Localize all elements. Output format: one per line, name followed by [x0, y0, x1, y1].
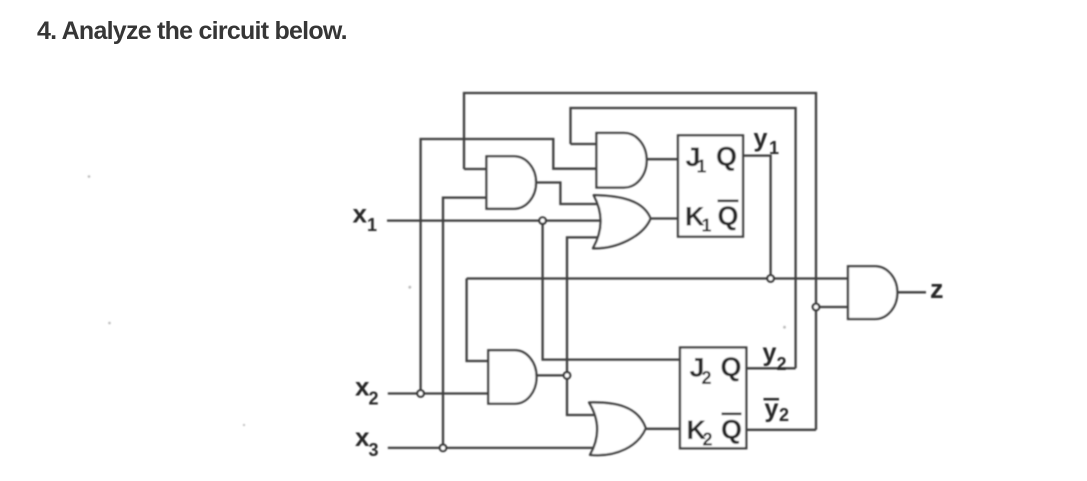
wire net ybar2 feedback top line1: [464, 93, 816, 430]
svg-text:y: y: [763, 339, 777, 367]
wire G2 top input from line2: [571, 143, 597, 145]
svg-text:1: 1: [367, 215, 377, 235]
svg-text:1: 1: [697, 157, 707, 177]
overbar of Qbar FF1: [718, 200, 739, 203]
junction on x3 line: [440, 445, 447, 452]
wire x2 to AND G2 input: [421, 139, 597, 394]
wire z output: [897, 291, 926, 293]
wire G4 output down to OR G5 top input: [567, 375, 594, 415]
svg-text:1: 1: [769, 138, 779, 158]
svg-text:2: 2: [702, 368, 712, 388]
and-gate G6 (z = y1·ybar2): [848, 266, 897, 319]
wire G4 output branch up to OR G3 bottom input: [567, 237, 599, 375]
svg-text:2: 2: [703, 430, 713, 450]
wire x3 to AND G1 bottom input: [443, 198, 488, 448]
overbar of Qbar FF2: [722, 413, 742, 416]
title text: [37, 19, 347, 44]
wire x3 input line: [388, 447, 593, 449]
wire ybar2 branch to z-gate bottom input: [816, 306, 848, 308]
wire x2 input line: [388, 392, 489, 394]
svg-text:Q: Q: [721, 352, 742, 382]
svg-text:3: 3: [369, 440, 379, 460]
flip-flop U1 (JK FF1) box: [678, 135, 743, 236]
wire y1 branch down to G4 top input: [467, 279, 489, 362]
wire x1 branch to J2 input: [543, 221, 680, 360]
svg-text:2: 2: [777, 354, 787, 374]
junction on x1 line: [539, 217, 546, 224]
svg-text:y: y: [754, 125, 768, 153]
junction ybar2 to z-gate: [813, 304, 820, 311]
or-gate G5 (to K2): [589, 402, 646, 455]
scan speck: [88, 175, 91, 178]
svg-text:1: 1: [702, 216, 712, 236]
scan speck: [108, 322, 111, 325]
and-gate G1 (x3·ybar2): [487, 156, 537, 208]
wire y1 to z-gate top input and branch: [467, 277, 848, 279]
and-gate G2 (x2·y2 to J1): [597, 133, 647, 188]
junction at G4 output: [564, 372, 571, 379]
scan speck: [408, 286, 411, 289]
wire net y2 feedback line2: [571, 108, 796, 368]
scan speck: [243, 424, 245, 426]
svg-text:Q: Q: [721, 415, 742, 445]
flip-flop U2 (JK FF2) box: [680, 348, 746, 449]
svg-text:Q: Q: [716, 142, 737, 172]
wire G1 top input from line1: [464, 168, 488, 170]
wire J1 input from G2 output: [647, 158, 678, 160]
scan speck: [783, 326, 786, 329]
wire y1 output from Q of FF1: [743, 156, 771, 279]
svg-text:Q: Q: [718, 201, 739, 231]
and-gate G4 (y1·x2): [488, 350, 536, 403]
svg-text:z: z: [930, 274, 944, 304]
svg-text:x: x: [353, 199, 368, 229]
wire K2 input from G5 output: [646, 428, 680, 430]
junction on x2 line: [417, 390, 424, 397]
wire ybar2 output from Qbar of FF2: [746, 429, 816, 431]
wire G4 output stub: [537, 374, 568, 376]
wire y2 output from Q of FF2: [746, 367, 795, 369]
wire x1 input line: [387, 219, 601, 221]
svg-text:2: 2: [369, 389, 379, 409]
overbar of ybar2: [764, 398, 780, 400]
wire K1 input from G3 output: [651, 217, 679, 219]
junction y1 to z-gate: [767, 275, 774, 282]
svg-text:2: 2: [779, 405, 789, 425]
wire G1 output to OR G3 top input: [536, 183, 600, 205]
or-gate G3 (to K1): [593, 195, 651, 248]
